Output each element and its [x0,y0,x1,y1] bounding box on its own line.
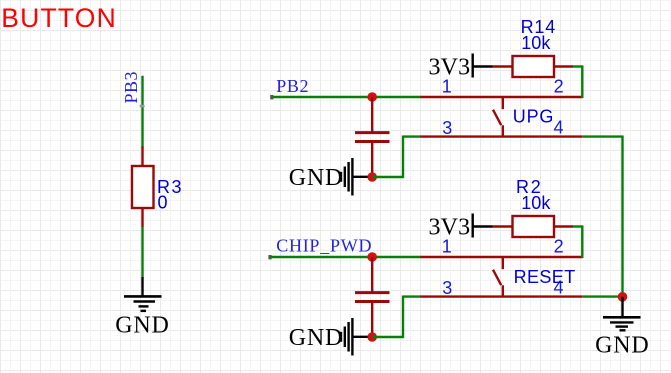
svg-text:BUTTON: BUTTON [1,3,117,33]
capacitor C2 pin bottom [371,303,373,338]
junction node right rail/gnd [618,292,628,302]
wire right rail vertical [621,136,623,298]
svg-text:3: 3 [442,118,452,138]
svg-text:UPG: UPG [513,107,554,127]
junction node cap2/gnd [367,332,377,342]
net label PB3 [121,71,141,104]
svg-text:GND: GND [115,313,169,339]
pin R3 bottom [141,208,143,227]
switch RESET [493,257,576,297]
junction node cap1/gnd [367,172,377,182]
svg-text:RESET: RESET [514,267,576,287]
svg-text:4: 4 [553,118,563,138]
svg-text:10k: 10k [521,33,551,53]
pin number 2 (UPG) [554,77,564,97]
wire PB2 (net 1) [270,95,421,99]
wire elbow cap2 to net 4 [372,296,421,339]
switch U1 pins 1-2 wire [420,96,582,98]
pin number 2 (RESET) [554,237,564,257]
svg-text:0: 0 [158,193,168,213]
svg-text:GND: GND [595,333,649,359]
capacitor C1 pin top [371,97,373,132]
power port 3V3 bottom [428,214,492,241]
wire R14 to net 1 [573,65,582,98]
capacitor C1 pin bottom [371,143,373,178]
svg-text:2: 2 [554,237,564,257]
pin number 1 (UPG) [442,77,452,97]
wire R3 to ground [141,227,143,278]
resistor R3 [132,166,183,213]
wire CHIP_PWD (net 2) [268,255,421,259]
power port GND bar 1 [289,158,370,196]
title BUTTON [1,3,117,33]
pin number 4 (UPG) [553,118,563,138]
svg-text:PB2: PB2 [276,76,309,96]
pin number 3 (RESET) [442,278,452,298]
net label CHIP_PWD [276,236,372,256]
switch U2 pins 3-4 wire [420,295,582,297]
svg-text:3V3: 3V3 [428,215,470,241]
wire net 4 to right rail [582,135,622,137]
switch U2 pins 1-2 wire [420,256,582,258]
ground GND right [595,297,649,359]
svg-text:CHIP_PWD: CHIP_PWD [276,236,372,256]
svg-text:PB3: PB3 [121,71,141,104]
pin number 3 (UPG) [442,118,452,138]
power port GND bar 2 [289,318,370,356]
pin number 1 (RESET) [442,237,452,257]
svg-text:10k: 10k [521,193,551,213]
svg-text:GND: GND [289,165,343,191]
net label PB2 [276,76,309,96]
switch UPG [493,97,554,137]
power port 3V3 top [428,54,492,81]
junction node net1/cap [367,92,377,102]
wire elbow cap1 to net 3 [372,136,421,179]
junction node net2/cap [367,252,377,262]
svg-text:2: 2 [554,77,564,97]
pin R2 left [493,225,513,227]
resistor R2 [513,177,555,237]
capacitor C2 [355,293,390,302]
wire net 4b to right rail [582,295,622,297]
svg-text:GND: GND [289,325,343,351]
capacitor C2 pin top [371,257,373,292]
resistor R14 [513,17,557,77]
pin R2 right [554,225,573,227]
pin R3 top [141,147,143,167]
switch U1 pins 3-4 wire [420,135,582,137]
pin R14 right [554,65,573,67]
capacitor C1 [355,133,390,142]
svg-text:3V3: 3V3 [428,55,470,81]
wire PB3 vertical [140,76,145,148]
pin R14 left [493,65,513,67]
svg-text:3: 3 [442,278,452,298]
wire R2 to net 2 [573,225,582,258]
ground GND left [115,277,169,339]
pin number 4 (RESET) [553,278,563,298]
